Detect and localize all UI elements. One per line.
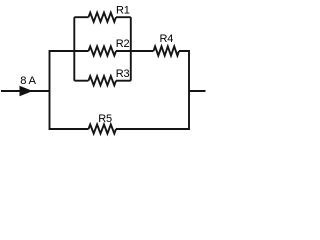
wire box left vertical [73, 17, 75, 80]
wire outer loop left+bottom (to R5 left lead) [50, 51, 89, 129]
arrowhead of current source [20, 86, 33, 97]
wire input lead [1, 90, 50, 92]
resistor R1 [89, 13, 117, 22]
wire R3 left lead [74, 80, 88, 82]
wire output stub [189, 90, 206, 92]
resistor R4 [154, 46, 180, 55]
svg-text:R2: R2 [116, 38, 130, 50]
wire bottom-right + right vertical + R4 right lead [116, 51, 189, 129]
wire R1 right lead [116, 16, 131, 18]
svg-text:R3: R3 [116, 68, 130, 80]
wire R2 right lead to R4 [116, 50, 154, 52]
svg-text:R4: R4 [160, 33, 174, 45]
svg-text:8 A: 8 A [20, 75, 36, 87]
wire R2 left lead [74, 50, 88, 52]
wire R3 right lead [116, 80, 131, 82]
svg-text:R5: R5 [98, 113, 112, 125]
wire R1 left lead [74, 16, 88, 18]
svg-text:R1: R1 [116, 4, 130, 16]
resistor R5 [89, 124, 117, 133]
resistor R3 [89, 76, 117, 85]
wire box right vertical [130, 17, 132, 80]
resistor R2 [89, 46, 117, 55]
